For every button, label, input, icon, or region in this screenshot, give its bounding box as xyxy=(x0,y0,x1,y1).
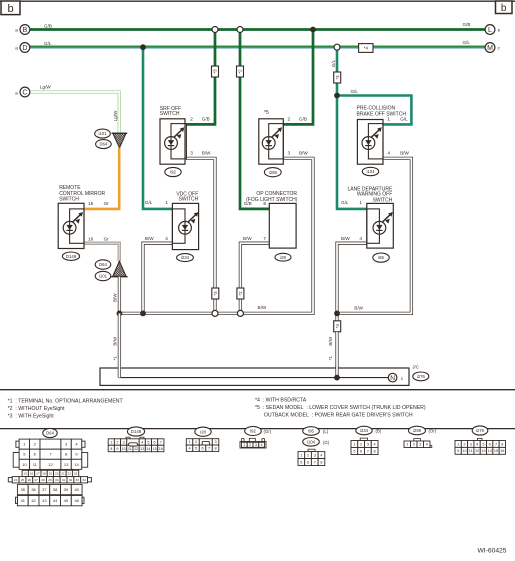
svg-text:2: 2 xyxy=(190,117,193,122)
svg-text:L: L xyxy=(488,27,492,34)
svg-text:22: 22 xyxy=(68,472,72,476)
joint connector triangle lower D64/i101 xyxy=(111,261,127,277)
svg-text:8: 8 xyxy=(214,447,216,451)
svg-text:15: 15 xyxy=(24,472,28,476)
svg-text:3: 3 xyxy=(419,443,421,447)
svg-text:G/B: G/B xyxy=(44,24,52,29)
svg-text:*5: *5 xyxy=(264,110,269,116)
svg-text:a: a xyxy=(15,28,18,33)
svg-text:B/W: B/W xyxy=(258,305,267,310)
wire G/B drop to OP connector pin 8 xyxy=(240,30,269,209)
junction dot ground x337 xyxy=(334,375,340,381)
svg-text:5: 5 xyxy=(195,447,197,451)
wire G/B bus xyxy=(30,28,485,31)
svg-text:*5 : SEDAN MODEL : LOWER COV: *5 : SEDAN MODEL : LOWER COVER SWITCH (T… xyxy=(255,405,426,411)
svg-text:20: 20 xyxy=(55,472,59,476)
svg-text:7: 7 xyxy=(208,447,210,451)
svg-text:*2: *2 xyxy=(238,291,243,296)
svg-text:7: 7 xyxy=(160,440,162,444)
svg-text:1: 1 xyxy=(188,440,190,444)
svg-text:17: 17 xyxy=(36,472,40,476)
svg-text:5: 5 xyxy=(147,440,149,444)
svg-text:G/L: G/L xyxy=(400,117,408,122)
svg-text:28: 28 xyxy=(41,478,45,482)
svg-text:9: 9 xyxy=(457,449,459,453)
svg-text:10: 10 xyxy=(462,449,466,453)
wire B/W bus horizontal xyxy=(119,158,313,313)
connector label i86 xyxy=(373,253,389,262)
svg-text:G/L: G/L xyxy=(463,40,471,45)
svg-text:Lg/W: Lg/W xyxy=(40,85,51,90)
svg-text:*1 : TERMINAL No. OPTIONAL AR: *1 : TERMINAL No. OPTIONAL ARRANGEMENT xyxy=(8,398,124,404)
svg-text:37: 37 xyxy=(42,487,47,492)
svg-text:15: 15 xyxy=(88,201,94,206)
svg-text:1: 1 xyxy=(300,453,302,457)
svg-text:8: 8 xyxy=(374,449,376,453)
svg-text:3: 3 xyxy=(470,442,472,446)
svg-text:2: 2 xyxy=(307,453,309,457)
svg-text:i28: i28 xyxy=(280,255,286,260)
junction dot G/L x337 y95 xyxy=(334,93,340,99)
svg-text:G/B: G/B xyxy=(202,117,210,122)
svg-text:3: 3 xyxy=(367,442,369,446)
switch SRF OFF xyxy=(160,106,187,164)
svg-text:D64: D64 xyxy=(46,431,54,436)
svg-text:31: 31 xyxy=(62,478,66,482)
svg-text:27: 27 xyxy=(34,478,38,482)
svg-text:7: 7 xyxy=(367,449,369,453)
ground terminal N xyxy=(388,373,397,382)
svg-text:12: 12 xyxy=(475,449,479,453)
svg-text:(FOG LIGHT SWITCH): (FOG LIGHT SWITCH) xyxy=(246,197,298,203)
svg-text:*3: *3 xyxy=(213,291,218,296)
svg-text:G/B: G/B xyxy=(463,22,471,27)
svg-text:5: 5 xyxy=(482,442,484,446)
svg-text:11: 11 xyxy=(469,449,473,453)
svg-text:12: 12 xyxy=(48,462,53,467)
svg-text:G/L: G/L xyxy=(331,59,336,67)
svg-text:*3: *3 xyxy=(335,75,340,80)
svg-text:6: 6 xyxy=(489,442,491,446)
svg-text:G/L: G/L xyxy=(351,89,359,94)
svg-text:i298: i298 xyxy=(413,428,422,433)
svg-text:*3: *3 xyxy=(213,69,218,74)
svg-text:8: 8 xyxy=(110,447,112,451)
wire B/W riser OP connector pin7 xyxy=(240,243,269,313)
svg-text:SWITCH: SWITCH xyxy=(160,111,180,117)
svg-text:i92: i92 xyxy=(250,429,256,434)
svg-text:1: 1 xyxy=(353,442,355,446)
connector label i101 lower xyxy=(95,271,111,280)
svg-text:i234: i234 xyxy=(181,255,190,260)
separator line above notes xyxy=(0,389,515,391)
svg-text:i234: i234 xyxy=(360,428,369,433)
svg-text:*4: *4 xyxy=(364,46,369,51)
svg-text:OP CONNECTOR: OP CONNECTOR xyxy=(256,191,297,197)
wire B/W riser SRF pin3 xyxy=(186,158,215,313)
svg-text:44: 44 xyxy=(53,498,58,503)
svg-text:*1: *1 xyxy=(113,356,118,361)
svg-text:1: 1 xyxy=(243,443,245,447)
box *2 lower xyxy=(237,288,244,299)
optional-arrangement box *2 upper xyxy=(237,66,244,77)
connector view i298 xyxy=(404,426,437,447)
svg-text:b: b xyxy=(7,3,13,15)
svg-text:e: e xyxy=(498,28,501,33)
svg-text:i276: i276 xyxy=(476,428,485,433)
wire G/L drop to VDC OFF switch pin 1 xyxy=(143,47,172,209)
svg-text:4: 4 xyxy=(165,236,168,241)
svg-text:3: 3 xyxy=(190,151,193,156)
ground bus bar xyxy=(100,368,409,385)
svg-text:(G): (G) xyxy=(323,440,330,445)
svg-text:45: 45 xyxy=(64,498,69,503)
connector label D64 lower xyxy=(95,260,111,269)
svg-text:11: 11 xyxy=(128,447,132,451)
svg-text:(Gr): (Gr) xyxy=(264,429,272,434)
svg-text:*1: *1 xyxy=(328,356,333,361)
svg-text:*2: *2 xyxy=(238,69,243,74)
svg-text:i276: i276 xyxy=(417,374,426,379)
wire B/W lane departure pin4 to dot xyxy=(337,243,367,313)
wire G/B drop to SRF OFF switch pin 2 xyxy=(186,30,215,125)
svg-text:3: 3 xyxy=(314,453,316,457)
svg-text:36: 36 xyxy=(31,487,36,492)
svg-text:*3 : WITH EyeSight: *3 : WITH EyeSight xyxy=(8,414,55,420)
svg-text:4: 4 xyxy=(359,236,362,241)
svg-text:40: 40 xyxy=(74,487,79,492)
svg-text:5: 5 xyxy=(353,449,355,453)
svg-text:SWITCH: SWITCH xyxy=(59,197,79,203)
svg-text:4: 4 xyxy=(426,443,428,447)
svg-text:13: 13 xyxy=(64,462,69,467)
svg-text:i298: i298 xyxy=(269,170,278,175)
svg-text:3: 3 xyxy=(214,440,216,444)
box *3 on G/L drop xyxy=(334,72,341,83)
svg-text:39: 39 xyxy=(64,487,69,492)
svg-text:(Or): (Or) xyxy=(429,429,437,434)
svg-text:SWITCH: SWITCH xyxy=(373,197,393,203)
svg-text:10: 10 xyxy=(122,447,126,451)
connector label i298 xyxy=(264,168,281,177)
svg-text:4: 4 xyxy=(320,453,322,457)
switch PRE-COLLISION BRAKE OFF xyxy=(357,106,407,165)
svg-text:3: 3 xyxy=(123,440,125,444)
svg-text:10: 10 xyxy=(22,462,27,467)
svg-text:4: 4 xyxy=(387,151,390,156)
svg-text:D: D xyxy=(22,45,27,52)
wire B/W pre-collision pin4 loop xyxy=(337,158,411,313)
svg-text:(L): (L) xyxy=(323,429,329,434)
wire G/L drop right branch xyxy=(337,47,367,209)
svg-text:1: 1 xyxy=(359,200,362,205)
svg-text:15: 15 xyxy=(494,449,498,453)
notes right column xyxy=(255,397,426,418)
svg-text:Or: Or xyxy=(104,201,110,206)
svg-text:a: a xyxy=(15,90,18,95)
wire B/W into ground bus right xyxy=(335,332,338,369)
svg-text:B/W: B/W xyxy=(400,151,409,156)
svg-text:(B): (B) xyxy=(376,429,382,434)
svg-text:3: 3 xyxy=(288,151,291,156)
notes left column xyxy=(8,398,124,419)
wire G/L branch to pre-collision pin 1 xyxy=(337,96,411,125)
wire B/W riser VDC pin4 xyxy=(143,243,172,313)
svg-text:2: 2 xyxy=(195,440,197,444)
switch lower cover *5 xyxy=(259,110,284,164)
svg-text:21: 21 xyxy=(61,472,65,476)
svg-text:38: 38 xyxy=(53,487,58,492)
svg-text:4: 4 xyxy=(188,447,190,451)
junction open B/W x240 xyxy=(237,310,243,316)
svg-text:16: 16 xyxy=(88,236,94,241)
junction open on G/B at x240 xyxy=(237,27,243,33)
wire B/W right ground inside xyxy=(335,366,338,378)
junction dot on G/L at x143 xyxy=(140,44,146,50)
connector view i92 xyxy=(240,427,272,449)
switch LANE DEPARTURE WARNING OFF xyxy=(347,186,393,248)
svg-text:30: 30 xyxy=(55,478,59,482)
terminal M xyxy=(485,43,495,53)
border top line xyxy=(0,0,515,2)
svg-text:G/L: G/L xyxy=(341,200,349,205)
svg-text:2: 2 xyxy=(413,443,415,447)
svg-text:SWITCH: SWITCH xyxy=(179,197,199,203)
connector view i276 large xyxy=(455,426,505,454)
svg-text:1: 1 xyxy=(165,200,168,205)
svg-text:*2 : WITHOUT EyeSight: *2 : WITHOUT EyeSight xyxy=(8,406,66,412)
connector view i28 xyxy=(186,427,219,451)
svg-text:B/W: B/W xyxy=(113,293,118,302)
svg-text:G/B: G/B xyxy=(244,201,252,206)
svg-text:G/L: G/L xyxy=(44,41,52,46)
svg-text:6: 6 xyxy=(201,447,203,451)
box *4 on G/L bus xyxy=(359,44,373,53)
connector label D64 upper xyxy=(96,140,112,149)
wire G/L bus xyxy=(30,45,486,49)
svg-text:B: B xyxy=(23,27,28,34)
svg-text:6: 6 xyxy=(154,440,156,444)
svg-text:D64: D64 xyxy=(99,262,107,267)
svg-text:13: 13 xyxy=(481,449,485,453)
connector label D149 xyxy=(62,252,79,260)
svg-text:*4 : WITH BSD/RCTA: *4 : WITH BSD/RCTA xyxy=(255,397,307,403)
svg-text:i95: i95 xyxy=(308,429,314,434)
connector label i104 xyxy=(362,167,378,175)
connector view i95 i104 xyxy=(298,427,330,466)
svg-text:41: 41 xyxy=(21,498,26,503)
connector label i276 xyxy=(413,372,429,381)
wire Gr from mirror switch pin 16 to joint connector xyxy=(84,243,119,261)
svg-text:35: 35 xyxy=(21,487,26,492)
svg-text:b: b xyxy=(501,3,507,14)
svg-text:6: 6 xyxy=(307,460,309,464)
svg-text:G/B: G/B xyxy=(299,117,307,122)
svg-text:1: 1 xyxy=(387,117,390,122)
junction open on G/B at x215 xyxy=(212,27,218,33)
svg-text:B/W: B/W xyxy=(145,236,154,241)
svg-text:2: 2 xyxy=(116,440,118,444)
svg-text:WI-60425: WI-60425 xyxy=(478,548,507,555)
box *3 right lower xyxy=(334,321,341,332)
svg-text:D64: D64 xyxy=(99,142,107,147)
svg-text:24: 24 xyxy=(14,478,18,482)
svg-text:Lg/W: Lg/W xyxy=(113,110,118,121)
wire G/B drop to lower cover switch pin 2 xyxy=(283,30,313,125)
terminal L xyxy=(485,25,495,35)
svg-text:16: 16 xyxy=(500,449,504,453)
svg-text:i104: i104 xyxy=(307,439,316,444)
svg-text:B/W: B/W xyxy=(341,236,350,241)
svg-text:15: 15 xyxy=(153,447,157,451)
wire B/W left into ground bus xyxy=(118,313,121,377)
junction dot B/W x119 xyxy=(117,311,123,317)
svg-text:8: 8 xyxy=(501,442,503,446)
optional-arrangement box *3 upper left xyxy=(212,66,219,77)
svg-text:26: 26 xyxy=(28,478,32,482)
separator line above connector views xyxy=(0,428,515,430)
svg-text:7: 7 xyxy=(495,442,497,446)
svg-text:33: 33 xyxy=(76,478,80,482)
svg-text:12: 12 xyxy=(134,447,138,451)
svg-text:OUTBACK MODEL : POWER REAR GA: OUTBACK MODEL : POWER REAR GATE DRIVER'S… xyxy=(264,412,413,418)
svg-text:i104: i104 xyxy=(366,169,375,174)
wire Lg/W from C xyxy=(30,92,120,133)
page marker b left xyxy=(1,1,20,15)
svg-text:1: 1 xyxy=(110,440,112,444)
svg-text:a: a xyxy=(15,46,18,51)
wire B/W from joint connector to ground bus line xyxy=(118,277,121,314)
svg-text:8: 8 xyxy=(263,201,266,206)
svg-text:25: 25 xyxy=(21,478,25,482)
svg-text:3: 3 xyxy=(255,443,257,447)
junction open B/W x215 xyxy=(212,310,218,316)
svg-text:4: 4 xyxy=(141,440,143,444)
wire B/W down to ground xyxy=(335,313,338,320)
svg-text:C: C xyxy=(22,90,27,97)
svg-text:B/W: B/W xyxy=(202,151,211,156)
switch REMOTE CONTROL MIRROR xyxy=(58,185,105,248)
joint connector triangle upper i101/D64 xyxy=(112,133,128,148)
svg-text:2: 2 xyxy=(463,442,465,446)
connector view D64 xyxy=(8,428,91,505)
svg-text:14: 14 xyxy=(74,462,79,467)
svg-text:7: 7 xyxy=(263,236,266,241)
svg-text:14: 14 xyxy=(488,449,492,453)
svg-text:34: 34 xyxy=(82,478,86,482)
svg-text:D149: D149 xyxy=(131,429,142,434)
svg-text:13: 13 xyxy=(140,447,144,451)
connector label i234 xyxy=(177,254,194,262)
junction dot B/W x337 xyxy=(334,311,340,317)
svg-text:2: 2 xyxy=(288,117,291,122)
OP connector fog light switch box xyxy=(246,191,298,248)
svg-text:29: 29 xyxy=(48,478,52,482)
svg-text:i101: i101 xyxy=(98,131,107,136)
svg-text:D149: D149 xyxy=(66,254,77,259)
svg-text:4: 4 xyxy=(476,442,478,446)
svg-text:B/W: B/W xyxy=(113,336,118,345)
svg-text:4: 4 xyxy=(261,443,263,447)
connector label i101 upper xyxy=(95,129,111,138)
svg-text:46: 46 xyxy=(74,498,79,503)
svg-text:43: 43 xyxy=(42,498,47,503)
svg-text:B/W: B/W xyxy=(354,305,363,310)
svg-text:N: N xyxy=(390,375,395,382)
svg-text:B/W: B/W xyxy=(328,336,333,345)
connector label i28 xyxy=(275,253,291,261)
svg-text:18: 18 xyxy=(42,472,46,476)
svg-text:32: 32 xyxy=(69,478,73,482)
svg-text:1: 1 xyxy=(457,442,459,446)
svg-text:8: 8 xyxy=(320,460,322,464)
svg-text:23: 23 xyxy=(74,472,78,476)
svg-text:i92: i92 xyxy=(170,170,176,175)
svg-text:M: M xyxy=(487,45,493,52)
svg-text:Gr: Gr xyxy=(104,236,110,241)
svg-text:9: 9 xyxy=(116,447,118,451)
connector label i92 xyxy=(165,167,181,176)
svg-text:BRAKE OFF SWITCH: BRAKE OFF SWITCH xyxy=(357,112,407,118)
svg-text:*3: *3 xyxy=(335,324,340,329)
svg-text:4: 4 xyxy=(374,442,376,446)
svg-text:42: 42 xyxy=(31,498,36,503)
switch VDC OFF xyxy=(172,191,198,249)
svg-text:19: 19 xyxy=(49,472,53,476)
svg-text:J/C: J/C xyxy=(412,364,419,369)
junction dot on G/B at x313 xyxy=(310,27,316,33)
svg-text:2: 2 xyxy=(360,442,362,446)
svg-text:B/W: B/W xyxy=(299,151,308,156)
svg-text:16: 16 xyxy=(159,447,163,451)
svg-text:1: 1 xyxy=(406,443,408,447)
junction open on G/L at x337 xyxy=(334,44,340,50)
wire Or from joint connector to mirror switch pin 15 xyxy=(84,148,119,209)
svg-text:7: 7 xyxy=(314,460,316,464)
page marker b right xyxy=(496,1,513,14)
connector view D149 xyxy=(108,427,164,452)
box *3 lower xyxy=(212,288,219,299)
connector view i234 xyxy=(351,426,382,454)
svg-text:2: 2 xyxy=(249,443,251,447)
svg-text:i28: i28 xyxy=(200,429,206,434)
svg-text:G/L: G/L xyxy=(145,200,153,205)
svg-text:14: 14 xyxy=(146,447,150,451)
svg-text:5: 5 xyxy=(300,460,302,464)
svg-text:16: 16 xyxy=(30,472,34,476)
svg-text:i86: i86 xyxy=(378,255,384,260)
svg-text:6: 6 xyxy=(360,449,362,453)
junction dot B/W x143 xyxy=(140,311,146,317)
svg-text:B/W: B/W xyxy=(243,236,252,241)
svg-text:i101: i101 xyxy=(99,274,108,279)
